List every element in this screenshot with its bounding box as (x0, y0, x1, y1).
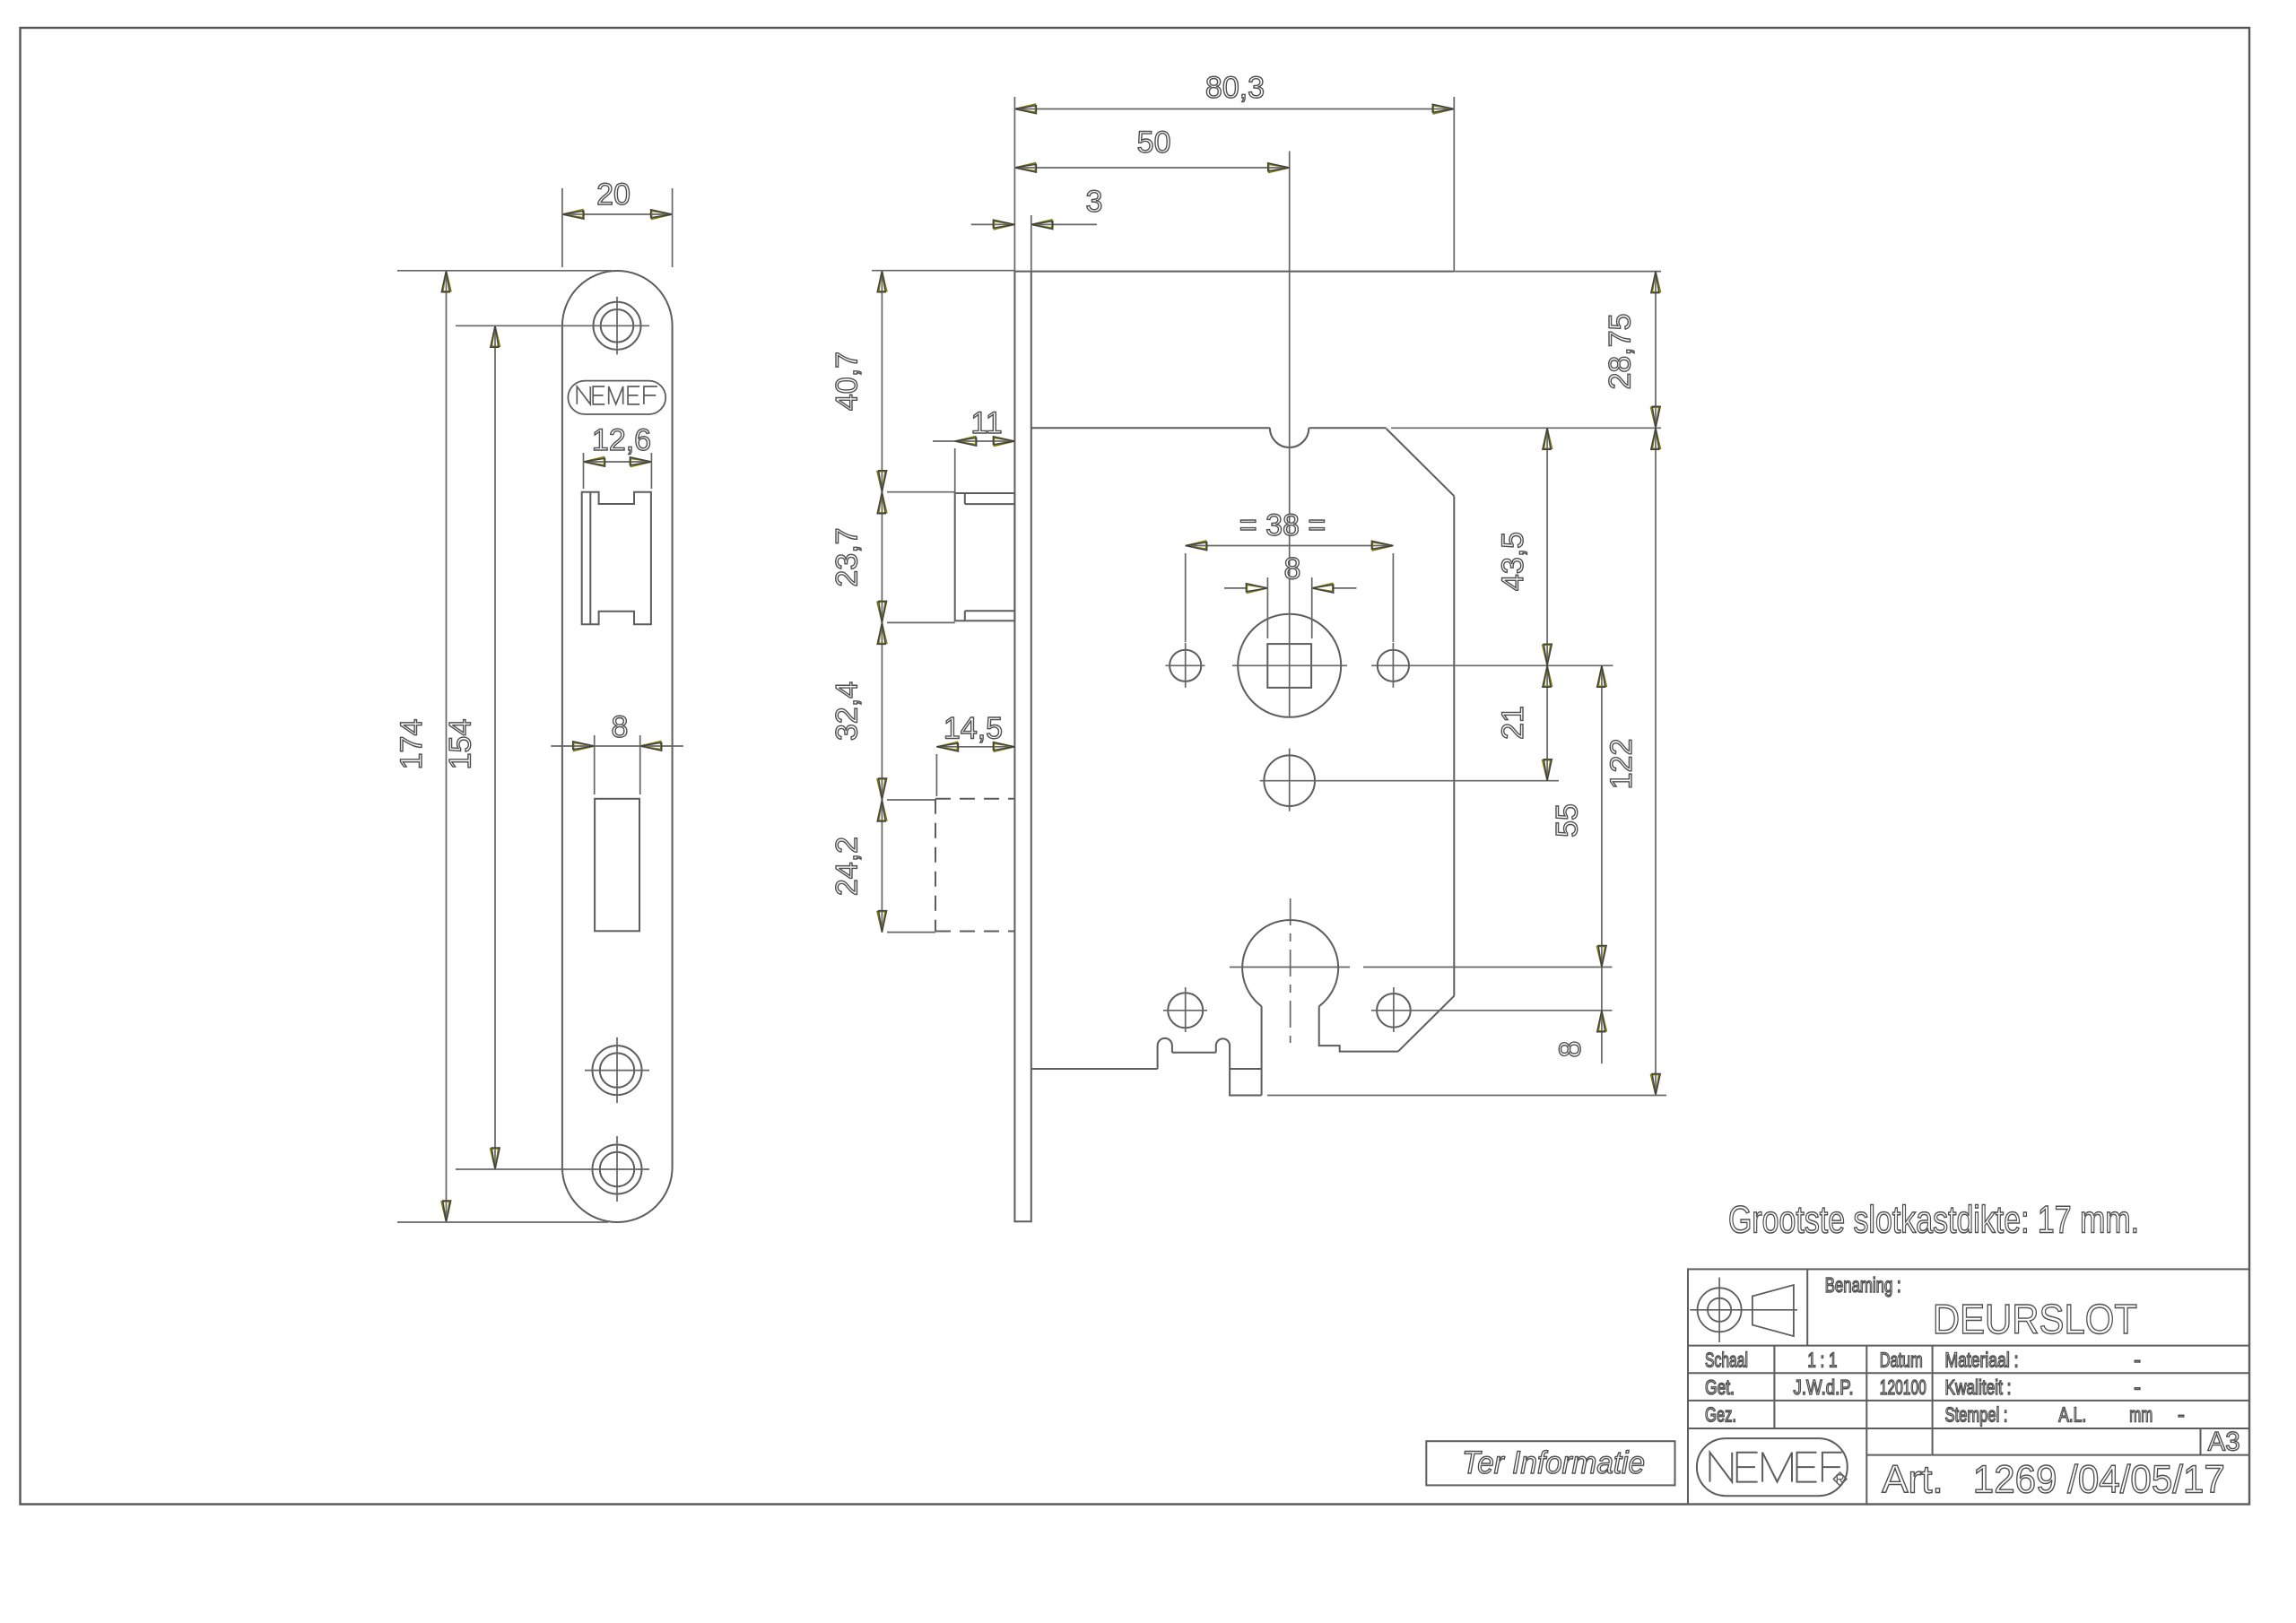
ext notch line to right dims (1391, 427, 1661, 429)
ext from cylinder to dims 55/8 (1363, 967, 1613, 968)
strike plate outline (stadium shape) (562, 271, 673, 1222)
svg-text:Schaal: Schaal (1705, 1349, 1748, 1372)
Ter Informatie box (1426, 1441, 1674, 1485)
deadbolt (dashed, retracted) (935, 798, 1014, 800)
svg-text:8: 8 (1284, 552, 1301, 586)
faceplate (front plate) of lock case (1014, 272, 1031, 1222)
right follower hole (1378, 650, 1409, 681)
svg-text:120100: 120100 (1880, 1376, 1926, 1399)
dim 3 right extension (1031, 215, 1032, 272)
dim 3 line with outside arrows (971, 223, 1013, 225)
spindle vertical centerline from dim 50 (1289, 152, 1291, 718)
spindle square 8mm (1267, 644, 1311, 688)
svg-text:8: 8 (612, 710, 629, 744)
title block vertical rules (1806, 1269, 1808, 1345)
dim 122 line (1655, 428, 1657, 1095)
dim 11 line (933, 440, 1014, 442)
spindle hole: big circle (1238, 614, 1341, 717)
svg-text:43,5: 43,5 (1496, 532, 1530, 591)
svg-text:Stempel :: Stempel : (1945, 1403, 2008, 1427)
dim 55 line (1601, 665, 1603, 967)
svg-text:50: 50 (1137, 126, 1171, 160)
dim 8 line (plate, outside arrows) (551, 745, 683, 747)
upper cutout (latch strike opening) (582, 492, 651, 625)
svg-text:Datum: Datum (1880, 1349, 1923, 1372)
svg-text:40,7: 40,7 (830, 352, 864, 411)
dim 80,3 right extension (1453, 97, 1455, 272)
bottom notch 1 (1158, 1038, 1172, 1069)
svg-text:1269 /04/05/17: 1269 /04/05/17 (1973, 1457, 2225, 1501)
ext tab bottom to dim 122 (1267, 1095, 1666, 1097)
dim =38= line (1186, 545, 1394, 547)
svg-text:23,7: 23,7 (830, 527, 864, 586)
svg-text:8: 8 (1553, 1041, 1587, 1058)
dim 174 extension lines (397, 270, 612, 272)
first-angle projection symbol (1698, 1288, 1742, 1332)
svg-text:A.L.: A.L. (2058, 1403, 2086, 1427)
top-right chamfer (1387, 429, 1455, 496)
svg-text:32,4: 32,4 (830, 681, 864, 741)
middle screw hole (593, 1046, 642, 1095)
lock case top edge (1031, 271, 1455, 273)
svg-text:174: 174 (395, 719, 429, 770)
dim 154 extension lines (456, 325, 585, 326)
svg-text:Benaming :: Benaming : (1825, 1273, 1901, 1297)
svg-text:1 : 1: 1 : 1 (1807, 1349, 1837, 1372)
svg-text:Grootste slotkastdikte: 17 mm.: Grootste slotkastdikte: 17 mm. (1728, 1199, 2139, 1242)
svg-text:mm: mm (2129, 1403, 2152, 1427)
case upper body line with notch (1031, 427, 1270, 429)
svg-text:-: - (2134, 1376, 2141, 1399)
left chain extension lines (872, 270, 1014, 272)
bottom screw hole (593, 1145, 642, 1194)
extension from right follower circle to dims 43,5/21/55 (1371, 664, 1613, 666)
case bottom edge (1031, 1068, 1158, 1070)
svg-text:Get.: Get. (1705, 1376, 1735, 1399)
registered trademark diamond (1833, 1472, 1847, 1486)
dim 80,3 line (1014, 108, 1454, 110)
svg-text:Kwaliteit :: Kwaliteit : (1945, 1376, 2012, 1399)
dim 154 line (494, 325, 496, 1169)
dim 8 spindle line, outside arrows (1224, 587, 1246, 589)
svg-text:Art.: Art. (1882, 1457, 1943, 1501)
dim 20 line (562, 213, 673, 215)
lower cutout (deadbolt strike opening) (595, 799, 639, 932)
title block outline (1688, 1269, 2249, 1504)
svg-text:Materiaal :: Materiaal : (1945, 1349, 2019, 1372)
dim 174 line (446, 271, 448, 1222)
left dim chain line (881, 271, 883, 933)
cylinder horizontal crosshair (1230, 967, 1350, 968)
svg-text:80,3: 80,3 (1205, 71, 1265, 105)
left follower hole (1170, 650, 1201, 681)
svg-text:122: 122 (1605, 739, 1639, 790)
spindle horizontal crosshair (1232, 664, 1347, 666)
svg-text:21: 21 (1496, 706, 1530, 740)
lower hole crosshair + ext to dim 21 (1260, 780, 1559, 782)
svg-text:Ter Informatie: Ter Informatie (1462, 1445, 1645, 1480)
dim 21 line (1546, 665, 1548, 780)
lower-right fixing hole (1377, 994, 1411, 1028)
svg-text:3: 3 (1086, 185, 1103, 219)
bottom tab under cylinder (1230, 1046, 1262, 1096)
dim 12,6 line (584, 461, 652, 463)
svg-text:11: 11 (970, 406, 1002, 440)
left extension for dims 80,3/50/3 (1013, 97, 1015, 272)
dim 50 line (1014, 167, 1289, 169)
right edge (1453, 496, 1455, 995)
svg-text:20: 20 (596, 178, 631, 212)
bottom notch 2 (1216, 1038, 1230, 1052)
bottom outline right of cylinder (1319, 1006, 1398, 1051)
NEMEF oval logo on plate (568, 381, 665, 414)
svg-text:A3: A3 (2208, 1428, 2240, 1457)
euro cylinder centerline (dash-dot) (1290, 898, 1291, 1043)
dim 14,5 line (936, 746, 1014, 748)
top edge extension to right dims (1454, 271, 1661, 273)
svg-text:14,5: 14,5 (944, 712, 1003, 746)
lower hole below spindle (1264, 755, 1315, 806)
svg-text:24,2: 24,2 (830, 837, 864, 896)
euro cylinder hole (circle + neck) (1242, 920, 1338, 1006)
NEMEF oval logo in title block (1697, 1438, 1848, 1496)
lower-left fixing hole (1168, 993, 1203, 1028)
dim 28,75 line (1655, 272, 1657, 429)
dim 8 right (outside arrows) (1601, 968, 1603, 1064)
svg-text:Gez.: Gez. (1705, 1403, 1736, 1427)
ext from lower-right hole to dim 8 (1415, 1010, 1613, 1011)
svg-text:28,75: 28,75 (1604, 313, 1638, 389)
top screw hole (594, 302, 641, 350)
semicircular notch (1270, 428, 1309, 447)
svg-text:J.W.d.P.: J.W.d.P. (1794, 1376, 1854, 1399)
svg-text:55: 55 (1551, 803, 1585, 838)
svg-text:12,6: 12,6 (592, 423, 651, 457)
svg-text:-: - (2134, 1349, 2141, 1372)
title block horizontal rules (1688, 1345, 2249, 1347)
svg-text:-: - (2178, 1403, 2185, 1427)
svg-text:DEURSLOT: DEURSLOT (1933, 1296, 2137, 1342)
bottom-right chamfer (1398, 996, 1454, 1052)
dim 43,5 line (1546, 428, 1548, 665)
latch bolt protruding from faceplate (955, 493, 1015, 621)
bottom plateau (1172, 1052, 1216, 1054)
svg-text:154: 154 (444, 719, 478, 770)
svg-text:= 38 =: = 38 = (1239, 508, 1326, 542)
